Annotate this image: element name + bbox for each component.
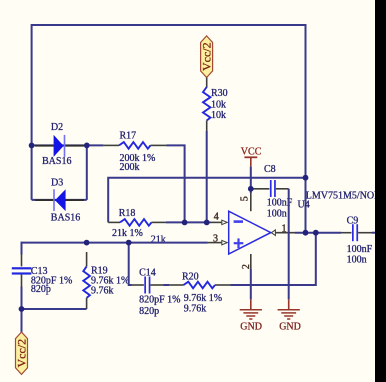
svg-text:BAS16: BAS16 xyxy=(42,156,71,167)
wire C14 branch from pin3 row xyxy=(129,243,132,285)
svg-text:21k 1%: 21k 1% xyxy=(112,228,143,239)
diode D2 xyxy=(35,122,84,167)
resistor R19 xyxy=(83,252,129,309)
pin 5 (positive supply) xyxy=(239,193,250,211)
svg-text:10k: 10k xyxy=(211,99,226,110)
wire C9 right stub xyxy=(372,232,376,234)
capacitor C13 xyxy=(12,254,73,295)
junction node R30/pin4 xyxy=(204,220,210,226)
junction node C14 branch xyxy=(126,240,132,246)
svg-text:9.76k: 9.76k xyxy=(91,285,114,296)
junction node D2 left xyxy=(29,143,35,149)
wire D2 row left segment xyxy=(32,144,87,146)
wire R18 to pin4 xyxy=(166,221,211,223)
svg-text:C8: C8 xyxy=(264,164,276,175)
pin 4 (inverting input) xyxy=(211,211,228,224)
svg-text:4: 4 xyxy=(214,211,219,222)
wire D2/D3 right vertical xyxy=(86,145,88,200)
resistor R30 xyxy=(203,78,228,132)
wire stub to bottom Vcc/2 flag xyxy=(21,309,23,332)
svg-text:D2: D2 xyxy=(51,122,63,133)
svg-text:100nF: 100nF xyxy=(347,244,373,255)
svg-text:10k: 10k xyxy=(211,110,226,121)
wire D3 row xyxy=(32,199,87,201)
op-amp U4 xyxy=(229,190,386,254)
power port Vcc/2 top flag xyxy=(199,36,213,78)
junction node R17/pin4 xyxy=(182,220,188,226)
svg-text:D3: D3 xyxy=(51,178,63,189)
svg-text:Vcc/2: Vcc/2 xyxy=(14,339,28,368)
junction node output/right vertical xyxy=(303,230,309,236)
resistor R20 xyxy=(169,271,231,314)
svg-text:2: 2 xyxy=(241,264,252,269)
junction node output/R20 riser xyxy=(313,230,319,236)
power port VCC xyxy=(241,147,262,167)
svg-text:BAS16: BAS16 xyxy=(51,213,80,224)
wire R30 to pin4 row xyxy=(206,131,208,222)
svg-text:GND: GND xyxy=(279,322,301,333)
svg-text:9.76k 1%: 9.76k 1% xyxy=(184,293,222,304)
svg-text:21k: 21k xyxy=(151,234,166,245)
wire R20 to output riser xyxy=(231,233,316,285)
ground GND (right, C8) xyxy=(278,299,301,332)
capacitor C8 xyxy=(253,164,293,220)
svg-text:C9: C9 xyxy=(347,215,359,226)
capacitor C9 xyxy=(341,215,373,265)
resistor R18 xyxy=(108,208,166,246)
junction node VCC/C8/pin5 xyxy=(248,186,254,192)
svg-text:GND: GND xyxy=(240,322,262,333)
svg-text:5: 5 xyxy=(239,196,250,201)
wire VCC to C8/pin5 node xyxy=(250,167,252,193)
junction node C13 bottom / Vcc2 xyxy=(19,306,25,312)
svg-text:C14: C14 xyxy=(139,267,156,278)
junction node R19 top xyxy=(84,240,90,246)
wire pin3 row / bottom-left network top rail xyxy=(22,242,208,244)
svg-text:100n: 100n xyxy=(347,255,367,266)
wire R17 to inverting node xyxy=(167,145,185,222)
resistor R17 xyxy=(87,131,167,174)
wire C13 top stub xyxy=(21,242,23,255)
screenshot right black band xyxy=(375,0,386,382)
svg-text:200k: 200k xyxy=(120,162,140,173)
svg-text:3: 3 xyxy=(213,233,218,244)
capacitor C14 xyxy=(132,267,181,317)
svg-text:Vcc/2: Vcc/2 xyxy=(199,42,213,71)
wire output row xyxy=(295,232,341,234)
junction node feedback/right vertical xyxy=(303,175,309,181)
svg-text:100n: 100n xyxy=(267,209,287,220)
wire feedback loop (output to R18 left) xyxy=(108,178,305,223)
wire C8 right down to GND xyxy=(288,189,290,300)
wire C14 to R20 xyxy=(164,284,170,286)
svg-text:820pF 1%: 820pF 1% xyxy=(139,295,180,306)
svg-text:820p: 820p xyxy=(31,284,51,295)
svg-text:VCC: VCC xyxy=(241,147,262,158)
pin 1 (output) xyxy=(271,223,295,235)
svg-text:1: 1 xyxy=(282,223,287,234)
pin 2 (negative supply) xyxy=(241,254,252,269)
svg-text:LMV751M5/NOPB: LMV751M5/NOPB xyxy=(306,190,386,201)
junction node D2 right xyxy=(84,143,90,149)
power port Vcc/2 bottom flag xyxy=(14,332,28,374)
svg-text:R17: R17 xyxy=(120,131,137,142)
wire top loop: left vertical, top horizontal, right vertical xyxy=(32,25,306,233)
svg-text:9.76k: 9.76k xyxy=(184,304,207,315)
svg-text:820p: 820p xyxy=(139,306,159,317)
ground GND (left, pin2) xyxy=(240,299,262,332)
svg-text:R30: R30 xyxy=(211,88,228,99)
svg-text:R20: R20 xyxy=(182,271,199,282)
diode D3 xyxy=(35,178,84,224)
pin 3 (non-inverting input) xyxy=(208,233,228,244)
svg-text:R18: R18 xyxy=(119,208,136,219)
wire bottom row C13 to R19 xyxy=(22,308,87,310)
wire C13 bottom stub xyxy=(21,287,23,310)
wire pin2 down to GND xyxy=(250,269,252,299)
